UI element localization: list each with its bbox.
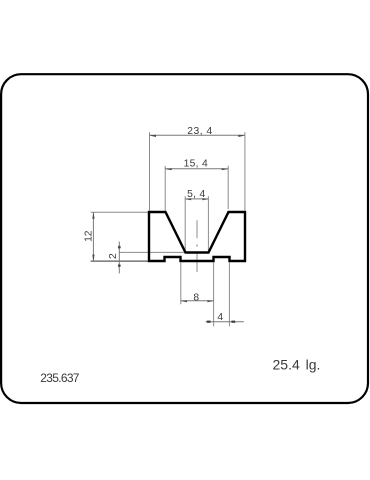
svg-text:15, 4: 15, 4 [184,159,208,170]
svg-text:2: 2 [108,253,119,259]
svg-text:12: 12 [83,230,94,242]
svg-text:4: 4 [217,312,223,323]
svg-text:235.637: 235.637 [40,371,80,385]
svg-text:5, 4: 5, 4 [187,189,205,200]
svg-text:23, 4: 23, 4 [187,126,212,137]
svg-text:25.4 lg.: 25.4 lg. [273,357,321,373]
svg-text:8: 8 [193,292,199,303]
